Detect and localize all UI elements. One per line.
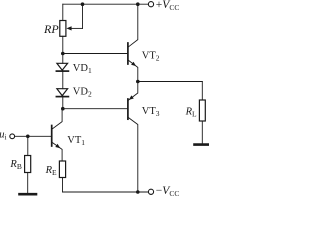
transistor VT2 base bar [127, 43, 129, 64]
resistor RB body [25, 156, 31, 173]
transistor VT3 emitter arrow [129, 95, 134, 100]
wire input to VT1 base [15, 135, 52, 137]
svg-text:VT1: VT1 [67, 135, 85, 147]
terminal circle input ui [10, 134, 15, 139]
svg-text:ui: ui [0, 130, 7, 142]
node dot VT2 collector at top rail [136, 2, 140, 6]
transistor VT1 collector [52, 109, 62, 129]
svg-text:RP: RP [43, 22, 59, 36]
wire wiper horizontal [71, 27, 83, 29]
node junction dot top rail / wiper [81, 2, 85, 6]
svg-text:VD1: VD1 [73, 63, 92, 75]
ground RB [20, 193, 37, 196]
node dot VT3 collector at bottom rail [136, 190, 140, 194]
wire RL bottom to ground [201, 121, 203, 143]
ground RL [195, 143, 210, 146]
diode VD2 triangle [57, 89, 68, 96]
transistor VT3 collector [129, 118, 138, 192]
wire output to RL [138, 81, 203, 83]
resistor RE body [59, 161, 65, 178]
svg-text:VT2: VT2 [142, 51, 160, 63]
potentiometer RP wiper arrowhead [66, 26, 71, 30]
potentiometer RP body [60, 21, 66, 37]
node dot VD2/VT1-collector/VT3-base [61, 107, 65, 111]
wire RE bottom to rail [62, 178, 64, 193]
wire VD1 to VD2 [62, 70, 64, 89]
transistor VT1 emitter [52, 143, 62, 162]
svg-text:VD2: VD2 [73, 87, 92, 99]
transistor VT2 collector [129, 4, 138, 47]
diode VD1 triangle [57, 63, 68, 70]
wire RL top drop [201, 82, 203, 101]
node dot RP/VD1/VT2-base [61, 52, 65, 56]
wire RB bottom to ground [27, 173, 29, 194]
diode VD2 cathode bar [56, 96, 68, 98]
wire RB top [27, 136, 29, 155]
svg-text:VT3: VT3 [142, 106, 160, 118]
wire VD2 to node [62, 96, 64, 109]
wire RE top (VT1 emitter lead) [61, 160, 63, 162]
transistor VT1 base bar [51, 126, 53, 147]
transistor VT2 emitter arrow [131, 62, 136, 66]
node dot output [136, 80, 140, 84]
svg-text:−VCC: −VCC [156, 185, 180, 198]
svg-text:RB: RB [9, 159, 21, 171]
wire RP top drop [62, 4, 64, 20]
wire RP bottom to node [62, 36, 64, 53]
transistor VT2 emitter [129, 60, 138, 81]
wire node to VT2 base [63, 53, 128, 55]
diode VD1 cathode bar [56, 70, 68, 72]
wire VD1 anode lead [62, 54, 64, 64]
terminal circle -Vcc [148, 189, 153, 194]
resistor RL body [199, 100, 205, 121]
terminal circle +Vcc [148, 2, 153, 7]
svg-text:RE: RE [45, 165, 57, 177]
wire bottom rail [63, 191, 149, 193]
node dot input/RB [26, 135, 30, 139]
wire top rail [63, 3, 149, 5]
wire node to VT3 base [63, 108, 128, 110]
svg-text:RL: RL [185, 106, 197, 118]
transistor VT1 emitter arrow [55, 144, 60, 148]
transistor VT3 base bar [127, 99, 129, 119]
transistor VT3 emitter [129, 82, 138, 101]
svg-text:+VCC: +VCC [156, 0, 180, 12]
wire wiper vertical [82, 4, 84, 28]
